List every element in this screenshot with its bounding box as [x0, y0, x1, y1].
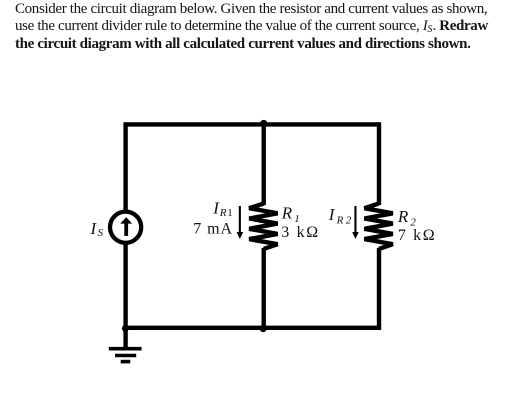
- svg-text:3 kΩ: 3 kΩ: [281, 224, 320, 241]
- svg-text:R: R: [336, 215, 344, 227]
- current source U1 circle: [110, 212, 141, 243]
- svg-text:I: I: [90, 219, 98, 238]
- svg-text:R: R: [219, 207, 227, 219]
- svg-text:7 mA: 7 mA: [193, 220, 233, 237]
- svg-text:R: R: [281, 204, 293, 223]
- wire middle branch lower: [262, 248, 266, 330]
- wire middle branch upper: [262, 122, 266, 205]
- resistor R1: [249, 204, 277, 249]
- wire bottom horizontal: [126, 326, 380, 330]
- resistor R2: [364, 204, 392, 249]
- svg-text:2: 2: [346, 215, 352, 227]
- arrow current IR2 direction: [352, 206, 359, 239]
- svg-text:R: R: [397, 207, 409, 226]
- wire top horizontal: [126, 122, 380, 126]
- svg-text:1: 1: [227, 207, 233, 219]
- wire left branch upper: [123, 122, 127, 211]
- wire left branch lower: [123, 244, 127, 348]
- svg-text:7 kΩ: 7 kΩ: [398, 227, 436, 244]
- node bottom-middle junction dot: [260, 325, 267, 332]
- current source U1 arrow: [120, 217, 132, 236]
- arrow current IR1 direction: [237, 206, 244, 239]
- node top-middle junction dot: [260, 120, 267, 127]
- ground: [109, 349, 142, 362]
- wire right branch upper: [377, 122, 381, 205]
- svg-text:I: I: [328, 205, 336, 224]
- svg-text:S: S: [98, 227, 104, 239]
- wire right branch lower: [377, 248, 381, 330]
- node bottom-left junction dot: [122, 325, 129, 332]
